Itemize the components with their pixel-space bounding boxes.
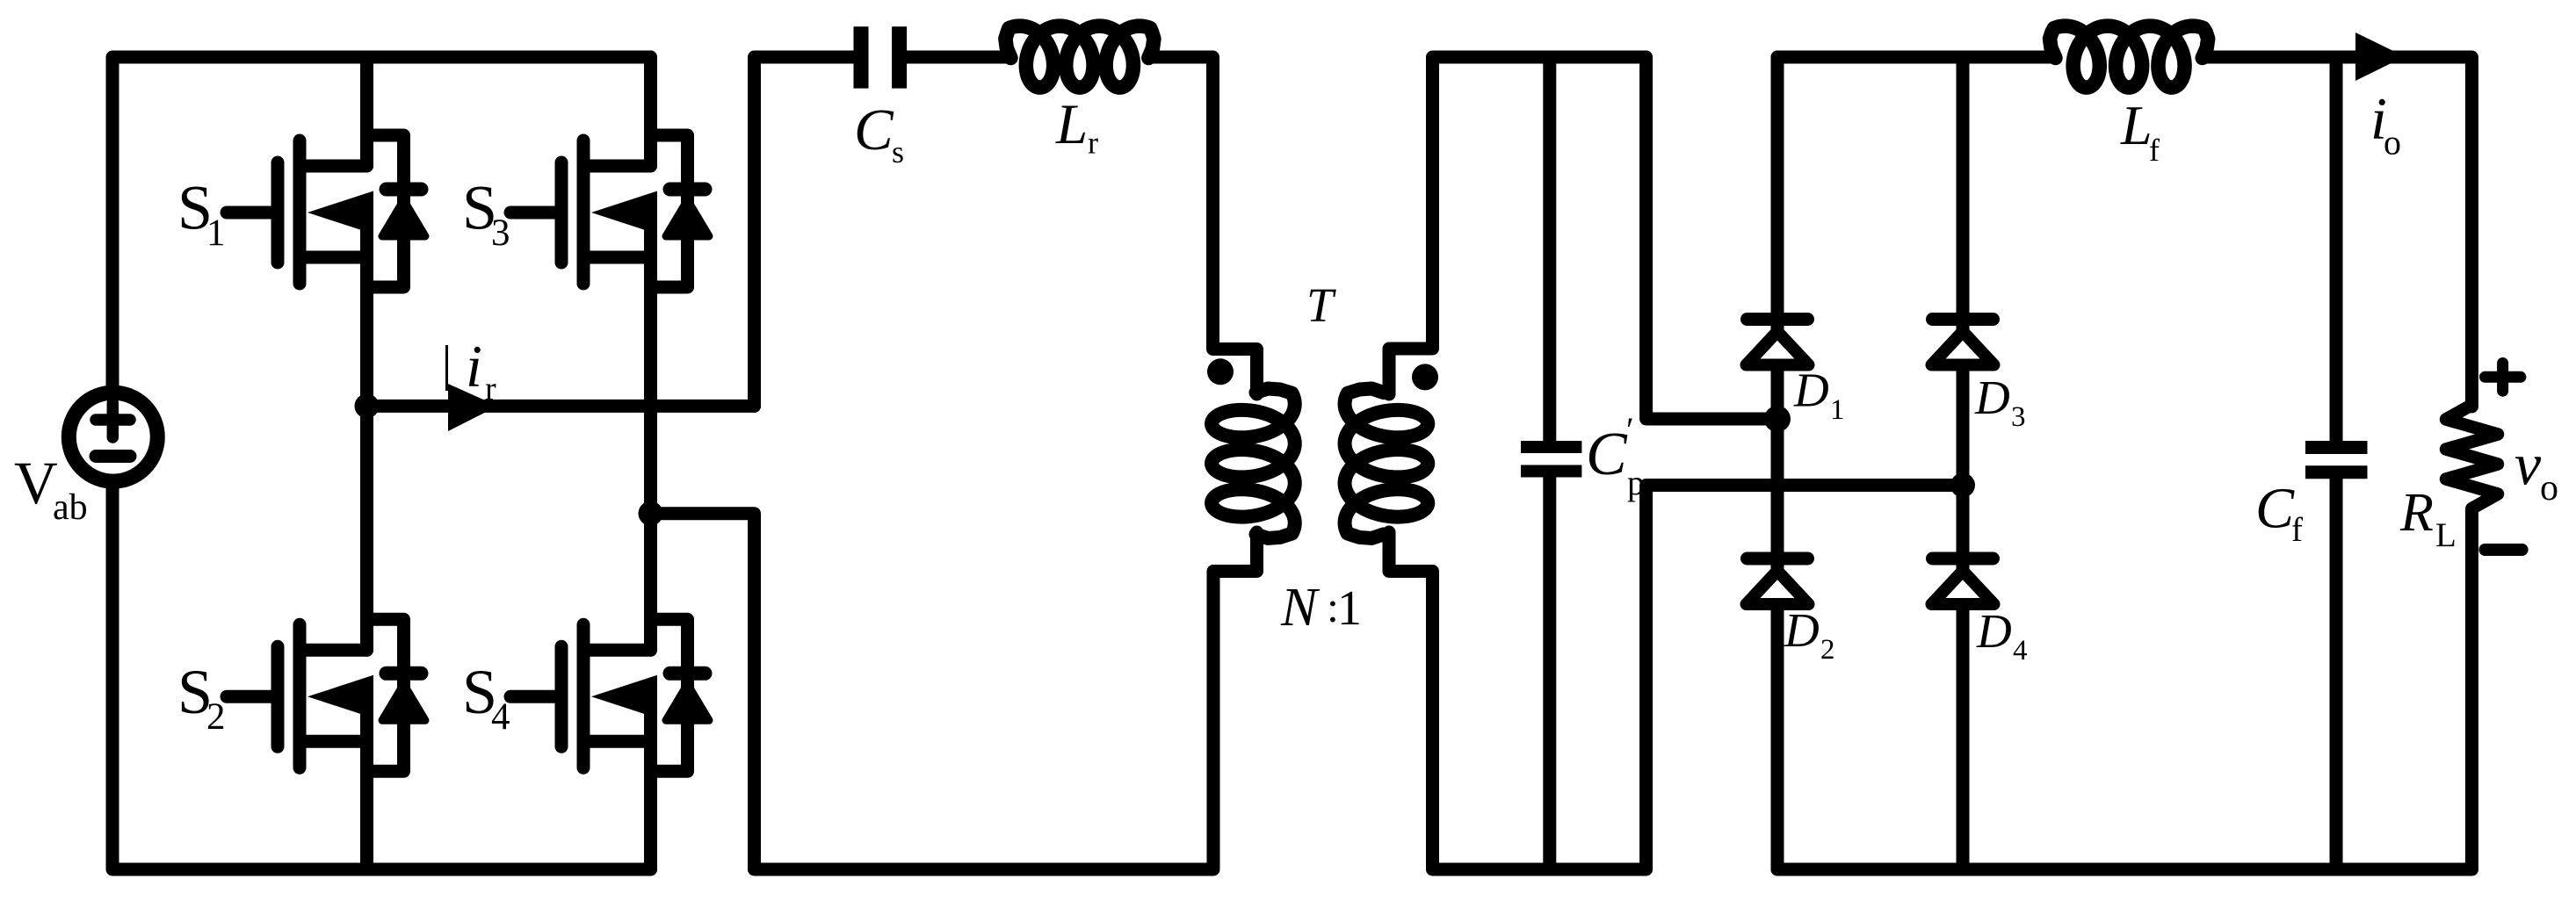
current arrow io [2355,32,2405,81]
svg-text:o: o [2384,122,2401,162]
svg-text:L: L [1055,93,1088,156]
wire transformer secondary top to rectifier D1-D2 midpoint [1389,57,1777,419]
transistor S2 channel bar [293,624,307,767]
wire S2 source stub to bottom rail [360,834,373,869]
svg-text:o: o [2540,468,2558,508]
output plus sign [2485,371,2521,383]
svg-text:D: D [1976,604,2012,658]
capacitor Cs left plate [854,26,869,88]
wire rectifier top rail to Lf [1777,51,2054,64]
svg-text:1: 1 [1337,581,1362,636]
transistor S1 drain wire [360,57,373,166]
wire Cp' top branch [1543,57,1556,441]
svg-text:R: R [2399,483,2434,543]
svg-text:2: 2 [1820,634,1835,666]
node b dot (right bridge midpoint) [639,501,663,526]
wire S1 drain stub from top rail [360,57,373,88]
wire Cf top branch [2330,57,2343,441]
svg-text:D: D [1793,364,1829,417]
svg-text:T: T [1306,278,1336,332]
wire Cs to Lr [906,51,1010,64]
transistor S2 source wire [360,695,373,869]
transistor S4 drain lead [590,644,651,657]
capacitor Cp' top plate [1521,441,1581,453]
transistor S4 gate lead [510,690,561,703]
transistor S3 source lead [590,251,651,264]
transistor S4 gate bar [555,646,568,746]
transistor S2 drain wire [360,406,373,650]
node dot D1-D2 midpoint [1764,406,1791,432]
inductor Lf coil [2050,26,2208,88]
transistor S3 body-diode triangle [666,200,709,236]
svg-text:C: C [854,97,894,162]
transistor S2 arrow [308,675,373,718]
svg-text:3: 3 [2011,401,2026,433]
svg-text:f: f [2291,511,2303,549]
transistor S4 source lead [590,735,651,748]
transistor S1 channel bar [293,141,307,284]
svg-text:r: r [485,371,496,407]
diode D1 triangle [1747,332,1809,365]
transistor S3 channel bar [577,141,590,284]
transistor S1 body-diode cathode bar [387,183,422,197]
wire Cp' bottom branch [1543,478,1556,869]
transistor S4 body-diode cathode bar [670,667,706,681]
inductor Lr coil [1005,26,1154,88]
svg-text:1: 1 [206,213,226,254]
transformer T primary polarity dot [1207,358,1234,385]
wire bottom rail of full bridge [112,486,651,869]
transistor S1 arrow [308,191,373,234]
svg-text:v: v [2514,431,2542,498]
transistor S1 gate bar [271,162,285,263]
transistor S3 gate lead [510,206,561,220]
svg-text:i: i [466,333,482,400]
wire Lf to output corner [2203,57,2471,407]
transistor S2 body-diode triangle [382,684,425,720]
diode D4 cathode bar [1933,552,1994,566]
svg-text:1: 1 [1830,394,1845,426]
wire node b to tank bottom return [651,514,1257,869]
transformer T primary winding [1212,389,1295,538]
transistor S3 body-diode cathode bar [670,183,706,197]
transistor S2 gate lead [227,690,278,703]
diode D2 triangle [1747,571,1809,604]
transistor S2 source lead [306,735,367,748]
diode D2 cathode bar [1747,552,1808,566]
svg-text:r: r [1088,126,1098,161]
voltage source Vab plus sign [96,414,130,426]
transistor S3 gate bar [555,162,568,263]
svg-text:D: D [1784,603,1820,657]
svg-text:2: 2 [206,696,226,738]
transistor S3 arrow [591,191,657,234]
wire top rail of full bridge [112,57,651,387]
node a dot (left bridge midpoint) [355,393,380,418]
svg-text:f: f [2149,133,2160,168]
resistor RL zigzag [2446,405,2498,508]
ir arrow tail tick [445,345,448,391]
transistor S4 body-diode triangle [666,684,709,720]
wire output bottom rail [1777,863,2471,876]
transistor S1 drain lead [306,160,367,173]
voltage source Vab circle [69,393,157,481]
transistor S2 gate bar [271,646,285,746]
current arrow ir [448,384,498,431]
output minus sign [2485,544,2522,556]
transistor S2 body-diode branch [367,619,404,771]
transistor S4 source wire [644,695,657,869]
wire rectifier leg D3 D4 [1957,57,1970,869]
svg-text:p: p [1627,463,1645,502]
transistor S1 source lead [306,251,367,264]
capacitor Cp' bottom plate [1521,465,1581,478]
diode D3 triangle [1932,332,1994,365]
svg-text:s: s [892,134,904,169]
capacitor Cf top plate [2305,441,2368,454]
transistor S3 drain lead [590,160,651,173]
svg-text:4: 4 [491,696,510,738]
transistor S1 gate lead [227,206,278,220]
node a junction wire with ir arrow [367,400,755,413]
capacitor Cf bottom plate [2305,465,2368,479]
diode D4 triangle [1932,571,1994,604]
transistor S1 body-diode branch [367,135,404,287]
transistor S2 drain lead [306,644,367,657]
wire Lr to transformer primary top [1149,57,1257,394]
diode D3 cathode bar [1933,313,1994,326]
transistor S3 body-diode branch [651,135,688,287]
svg-text:4: 4 [2013,635,2028,667]
svg-text:N: N [1280,578,1321,638]
voltage source Vab minus sign [96,450,130,463]
svg-text:D: D [1974,371,2010,424]
svg-text:ab: ab [53,487,88,528]
transistor S4 body-diode branch [651,619,688,771]
wire transformer secondary bottom to rectifier D3-D4 midpoint [1389,486,1963,870]
diode D1 cathode bar [1747,313,1808,326]
svg-text:′: ′ [1626,410,1634,450]
transistor S1 body-diode triangle [382,200,425,236]
wire load rail below RL [2465,510,2478,869]
transformer T secondary winding [1345,389,1429,538]
wire tank top: node a up and right to Cs [755,57,856,406]
wire Cf bottom branch [2330,479,2343,869]
transistor S3 source wire [644,211,657,514]
transistor S2 body-diode cathode bar [387,667,422,681]
capacitor Cs right plate [892,26,907,88]
svg-text:V: V [14,450,58,516]
svg-text:3: 3 [491,213,510,254]
svg-text:C: C [2255,477,2295,541]
transistor S3 drain wire [644,57,657,166]
node dot D3-D4 midpoint [1950,473,1975,498]
transformer T secondary polarity dot [1412,364,1438,390]
svg-text:L: L [2435,516,2457,554]
transistor S4 drain wire [644,514,657,651]
transistor S4 channel bar [577,624,590,767]
svg-text:C: C [1586,421,1628,488]
svg-text:L: L [2120,94,2153,156]
transistor S4 arrow [591,675,657,718]
wire rectifier leg D1 D2 [1771,57,1784,869]
transistor S1 source wire [360,211,373,406]
